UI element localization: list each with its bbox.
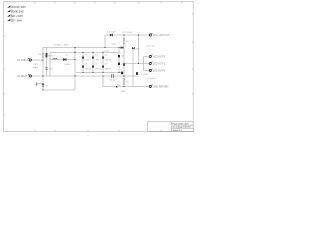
svg-text:1N4007: 1N4007 (64, 64, 72, 66)
svg-text:230V: 230V (33, 64, 39, 66)
svg-text:Sheet: 1/1: Sheet: 1/1 (173, 129, 183, 132)
transistor Q1 (118, 55, 125, 58)
connector J3 +12V (149, 33, 170, 37)
svg-text:+12V REG: +12V REG (122, 32, 133, 34)
wire vertical x138.5 (138, 35, 140, 64)
earth symbol (36, 82, 38, 86)
svg-text:50Hz: 50Hz (33, 67, 38, 69)
svg-text:GND: GND (121, 91, 126, 93)
transistor Q2 (118, 63, 125, 66)
wire AC-N rail y76 (32, 75, 138, 77)
capacitor C4 (136, 72, 149, 76)
wire top rail y47.5 (43, 47, 124, 49)
wire vertical x103 (102, 53, 104, 73)
diode D8 on 12V rail (107, 32, 116, 37)
wire LED top rail y72.5 (76, 72, 124, 74)
capacitor C1 (42, 85, 49, 88)
wire L-D path y59.5 (50, 59, 75, 61)
svg-text:LED R: LED R (85, 59, 92, 61)
wire mid out y63.5 (124, 63, 144, 65)
wire earth stub (37, 83, 44, 85)
wire gnd run y86.5 (103, 76, 149, 87)
LED D5 (82, 64, 92, 71)
connector J1 AC-L (17, 58, 31, 62)
wire vertical x50 (49, 53, 51, 77)
svg-text:LED R: LED R (85, 68, 92, 70)
svg-text:LED B: LED B (105, 59, 112, 61)
connector J6 OUT B (149, 69, 165, 73)
svg-text:C4 100n: C4 100n (140, 74, 149, 76)
svg-text:AC LINE IN: AC LINE IN (17, 59, 29, 62)
LED D2 (82, 55, 92, 62)
svg-text:D Series: D Series (148, 77, 157, 80)
connector J2 AC-N (17, 74, 31, 78)
regulator U1 (123, 63, 129, 67)
svg-text:+150V: +150V (103, 50, 110, 52)
wire rail2 y52.5 (50, 52, 119, 54)
fuse F1 (39, 53, 44, 57)
wire AC-L stub (32, 59, 43, 61)
LED D4 (102, 55, 112, 62)
hierarchical flag 1 (7, 4, 26, 9)
svg-text:SET- SW4: SET- SW4 (11, 20, 23, 23)
svg-text:LED B: LED B (105, 68, 112, 70)
svg-text:ON/OFF SW1: ON/OFF SW1 (11, 6, 27, 9)
connector J5 OUT G (149, 62, 165, 66)
capacitor C3 (109, 74, 117, 81)
wire output bus x143.5 (144, 57, 149, 71)
inductor L1 (53, 56, 58, 60)
wire 12V rail y35 (105, 35, 149, 48)
capacitor C2 (121, 71, 126, 74)
diode D10 (132, 47, 141, 50)
svg-text:Flash 2035 Clock: Flash 2035 Clock (173, 124, 190, 126)
svg-text:4x multiplexed LED: 4x multiplexed LED (173, 126, 191, 129)
sheet border frame (4, 2, 194, 132)
net flag on gnd wire (115, 85, 120, 88)
connector J4 OUT R (149, 55, 165, 59)
svg-text:+12V rail: +12V rail (146, 44, 155, 47)
wire vertical x119 (118, 48, 120, 73)
varistor RV1 (46, 53, 53, 57)
LED D6 (92, 64, 102, 71)
svg-text:LED G: LED G (95, 68, 102, 70)
svg-text:D8 4148: D8 4148 (107, 32, 116, 34)
svg-text:VCC +12V OUT: VCC +12V OUT (153, 35, 170, 37)
wire bottom left rail y90 (43, 89, 75, 91)
ground GND (121, 91, 126, 93)
hierarchical flag 3 (7, 13, 23, 18)
wire vertical x124 (123, 35, 125, 87)
wire vertical x75 (74, 48, 76, 91)
wire vertical x83 (82, 53, 84, 73)
connector J7 GND (149, 85, 168, 89)
wire vertical x46.5 (46, 48, 48, 77)
svg-text:LED OUT R: LED OUT R (153, 57, 166, 59)
svg-text:SET+ SW3: SET+ SW3 (11, 15, 24, 18)
LED D3 (92, 55, 102, 62)
capacitor CX1 (45, 68, 53, 71)
hierarchical flag 4 (7, 18, 22, 23)
wire vertical x93 (92, 53, 94, 73)
svg-text:C3 104: C3 104 (109, 79, 117, 81)
title block (148, 122, 194, 132)
wire vertical x43 (42, 48, 44, 91)
svg-text:GND RETURN: GND RETURN (153, 87, 169, 89)
junction dots (42, 34, 139, 90)
resistor R2 (123, 79, 129, 84)
hierarchical flag 2 (7, 10, 24, 14)
LED D7 (102, 64, 112, 71)
svg-text:MODE SW2: MODE SW2 (11, 11, 25, 14)
svg-text:LED G: LED G (95, 59, 102, 61)
wire vertical x133 (132, 48, 134, 87)
svg-text:LED OUT B: LED OUT B (153, 71, 166, 73)
svg-text:LED OUT G: LED OUT G (153, 64, 166, 66)
diode D9 (121, 46, 123, 49)
diode D1 (63, 54, 72, 66)
svg-text:HV RECT. BUS: HV RECT. BUS (54, 45, 70, 47)
resistor R1 (123, 38, 129, 44)
svg-text:AC NEUT IN: AC NEUT IN (17, 75, 30, 78)
